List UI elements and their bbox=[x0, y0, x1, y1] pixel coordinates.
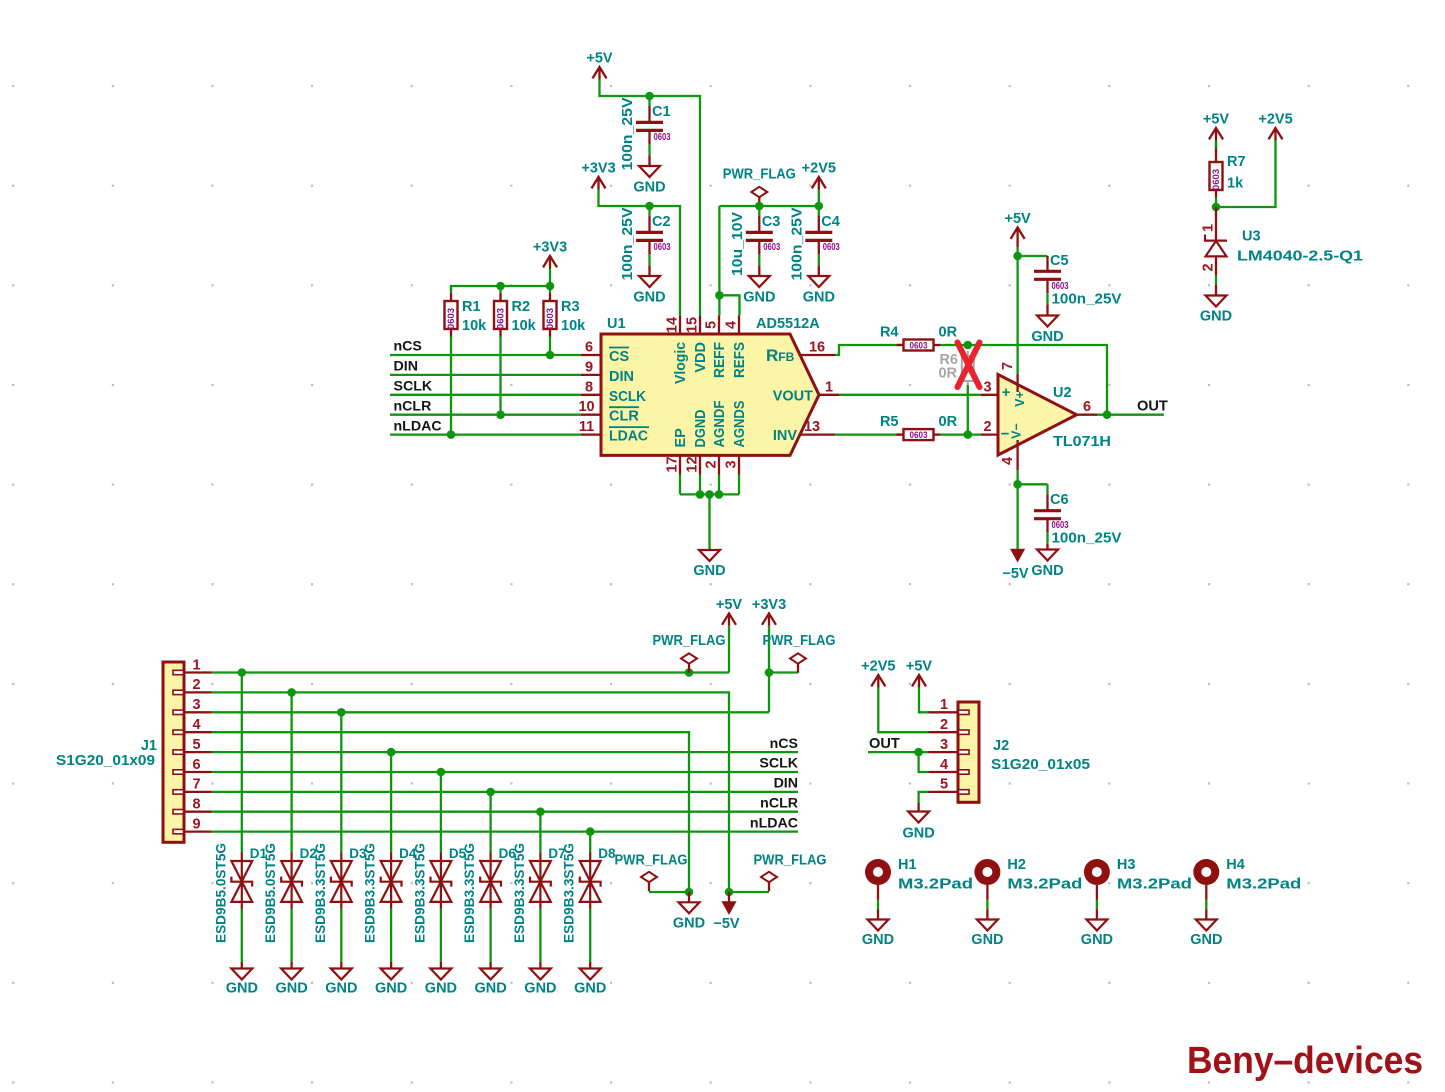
svg-text:M3.2Pad: M3.2Pad bbox=[898, 877, 973, 893]
svg-text:10u_10V: 10u_10V bbox=[730, 212, 746, 276]
svg-text:15: 15 bbox=[684, 317, 700, 333]
svg-text:7: 7 bbox=[192, 777, 200, 793]
svg-text:5: 5 bbox=[192, 737, 200, 753]
svg-text:+5V: +5V bbox=[1004, 211, 1031, 227]
svg-text:5: 5 bbox=[703, 321, 719, 329]
svg-text:2: 2 bbox=[192, 677, 200, 693]
svg-text:R4: R4 bbox=[880, 325, 899, 341]
svg-text:PWR_FLAG: PWR_FLAG bbox=[754, 853, 827, 869]
svg-text:+2V5: +2V5 bbox=[1258, 112, 1292, 128]
svg-text:0R: 0R bbox=[939, 325, 958, 341]
svg-text:2: 2 bbox=[1200, 263, 1216, 271]
svg-text:+2V5: +2V5 bbox=[861, 659, 895, 675]
svg-text:H1: H1 bbox=[898, 857, 917, 873]
svg-text:12: 12 bbox=[684, 456, 700, 472]
svg-text:ESD9B3.3ST5G: ESD9B3.3ST5G bbox=[412, 843, 427, 943]
svg-text:4: 4 bbox=[940, 757, 948, 773]
svg-text:3: 3 bbox=[940, 737, 948, 753]
svg-text:PWR_FLAG: PWR_FLAG bbox=[723, 167, 796, 183]
svg-text:+5V: +5V bbox=[906, 659, 933, 675]
svg-text:U2: U2 bbox=[1053, 385, 1072, 401]
svg-text:−5V: −5V bbox=[713, 916, 740, 932]
svg-text:1: 1 bbox=[825, 379, 833, 395]
svg-text:+5V: +5V bbox=[716, 597, 743, 613]
svg-text:10k: 10k bbox=[512, 318, 537, 334]
svg-text:D8: D8 bbox=[598, 846, 616, 861]
svg-text:SCLK: SCLK bbox=[759, 756, 798, 772]
svg-text:0603: 0603 bbox=[1052, 281, 1069, 292]
svg-text:GND: GND bbox=[633, 180, 665, 196]
svg-text:0603: 0603 bbox=[763, 242, 780, 253]
svg-text:GND: GND bbox=[971, 932, 1003, 948]
svg-text:C6: C6 bbox=[1050, 492, 1069, 508]
svg-text:nCLR: nCLR bbox=[394, 398, 432, 414]
svg-text:S1G20_01x09: S1G20_01x09 bbox=[56, 753, 155, 769]
svg-text:REFS: REFS bbox=[732, 342, 748, 378]
svg-text:INV: INV bbox=[773, 428, 798, 444]
svg-text:R2: R2 bbox=[512, 299, 531, 315]
svg-text:7: 7 bbox=[1000, 362, 1016, 370]
svg-text:GND: GND bbox=[375, 981, 407, 997]
svg-text:0603: 0603 bbox=[496, 308, 507, 329]
svg-text:100n_25V: 100n_25V bbox=[620, 97, 636, 170]
svg-text:+5V: +5V bbox=[586, 51, 613, 67]
svg-text:H2: H2 bbox=[1007, 857, 1026, 873]
svg-text:5: 5 bbox=[940, 777, 948, 793]
svg-text:M3.2Pad: M3.2Pad bbox=[1226, 877, 1301, 893]
svg-text:REFF: REFF bbox=[712, 342, 728, 378]
svg-text:0603: 0603 bbox=[654, 132, 671, 143]
svg-text:nLDAC: nLDAC bbox=[750, 815, 798, 831]
svg-text:3: 3 bbox=[983, 379, 991, 395]
svg-text:AD5512A: AD5512A bbox=[756, 316, 820, 332]
svg-text:0R: 0R bbox=[939, 414, 958, 430]
svg-text:S1G20_01x05: S1G20_01x05 bbox=[991, 757, 1090, 773]
svg-text:PWR_FLAG: PWR_FLAG bbox=[615, 853, 688, 869]
svg-text:6: 6 bbox=[1083, 399, 1091, 415]
svg-text:8: 8 bbox=[585, 379, 593, 395]
svg-text:PWR_FLAG: PWR_FLAG bbox=[653, 633, 726, 649]
svg-text:9: 9 bbox=[585, 359, 593, 375]
svg-text:nLDAC: nLDAC bbox=[394, 418, 442, 434]
svg-text:10k: 10k bbox=[462, 318, 487, 334]
svg-text:4: 4 bbox=[192, 717, 200, 733]
svg-text:ESD9B3.3ST5G: ESD9B3.3ST5G bbox=[313, 843, 328, 943]
svg-text:V−: V− bbox=[1010, 423, 1024, 439]
svg-text:Vlogic: Vlogic bbox=[673, 342, 689, 384]
svg-text:R1: R1 bbox=[462, 299, 481, 315]
svg-text:1: 1 bbox=[940, 697, 948, 713]
svg-text:GND: GND bbox=[524, 981, 556, 997]
svg-text:0603: 0603 bbox=[910, 430, 928, 441]
svg-text:DGND: DGND bbox=[693, 410, 709, 448]
svg-text:GND: GND bbox=[474, 981, 506, 997]
svg-text:3: 3 bbox=[192, 697, 200, 713]
svg-text:11: 11 bbox=[579, 419, 594, 435]
svg-text:GND: GND bbox=[743, 290, 775, 306]
svg-text:C3: C3 bbox=[762, 214, 781, 230]
svg-text:DIN: DIN bbox=[609, 369, 634, 385]
svg-text:GND: GND bbox=[1200, 309, 1232, 325]
svg-text:GND: GND bbox=[633, 290, 665, 306]
svg-text:GND: GND bbox=[574, 981, 606, 997]
svg-text:ESD9B5.0ST5G: ESD9B5.0ST5G bbox=[213, 843, 228, 943]
svg-text:16: 16 bbox=[809, 340, 825, 356]
svg-text:0603: 0603 bbox=[1211, 169, 1222, 190]
svg-text:nCS: nCS bbox=[770, 736, 798, 752]
svg-text:C5: C5 bbox=[1050, 253, 1069, 269]
svg-text:VDD: VDD bbox=[693, 342, 709, 373]
svg-text:OUT: OUT bbox=[1137, 399, 1168, 415]
svg-text:+5V: +5V bbox=[1203, 112, 1230, 128]
svg-text:17: 17 bbox=[664, 456, 680, 472]
svg-text:6: 6 bbox=[585, 340, 593, 356]
svg-text:C2: C2 bbox=[652, 214, 671, 230]
svg-text:1: 1 bbox=[192, 657, 200, 673]
svg-text:−: − bbox=[1001, 426, 1010, 443]
svg-text:14: 14 bbox=[664, 317, 680, 333]
svg-text:M3.2Pad: M3.2Pad bbox=[1007, 877, 1082, 893]
svg-text:AGNDS: AGNDS bbox=[732, 400, 748, 447]
svg-text:CS: CS bbox=[609, 349, 629, 365]
svg-text:10: 10 bbox=[578, 399, 594, 415]
svg-text:0603: 0603 bbox=[545, 308, 556, 329]
svg-text:100n_25V: 100n_25V bbox=[1052, 531, 1122, 547]
svg-text:SCLK: SCLK bbox=[609, 389, 646, 405]
svg-text:100n_25V: 100n_25V bbox=[620, 207, 636, 280]
svg-text:8: 8 bbox=[192, 797, 200, 813]
svg-text:GND: GND bbox=[325, 981, 357, 997]
svg-text:9: 9 bbox=[192, 816, 200, 832]
svg-text:GND: GND bbox=[425, 981, 457, 997]
svg-text:3: 3 bbox=[723, 460, 739, 468]
svg-text:+2V5: +2V5 bbox=[802, 161, 836, 177]
svg-text:SCLK: SCLK bbox=[394, 379, 433, 395]
svg-text:H3: H3 bbox=[1117, 857, 1136, 873]
svg-text:4: 4 bbox=[1000, 457, 1016, 465]
svg-text:CLR: CLR bbox=[609, 409, 639, 425]
svg-text:10k: 10k bbox=[561, 318, 586, 334]
svg-text:ESD9B3.3ST5G: ESD9B3.3ST5G bbox=[562, 843, 577, 943]
svg-text:0603: 0603 bbox=[654, 242, 671, 253]
svg-text:13: 13 bbox=[804, 419, 820, 435]
svg-text:TL071H: TL071H bbox=[1053, 434, 1111, 450]
svg-text:2: 2 bbox=[983, 419, 991, 435]
svg-text:4: 4 bbox=[723, 321, 739, 329]
svg-text:−5V: −5V bbox=[1002, 566, 1029, 582]
svg-text:ESD9B5.0ST5G: ESD9B5.0ST5G bbox=[263, 843, 278, 943]
svg-text:VOUT: VOUT bbox=[773, 389, 813, 405]
svg-text:+: + bbox=[1002, 384, 1011, 401]
svg-text:0603: 0603 bbox=[823, 242, 840, 253]
svg-text:Beny–devices: Beny–devices bbox=[1187, 1040, 1423, 1082]
svg-text:PWR_FLAG: PWR_FLAG bbox=[763, 633, 836, 649]
svg-text:V+: V+ bbox=[1013, 391, 1027, 407]
svg-text:EP: EP bbox=[673, 428, 689, 448]
svg-text:GND: GND bbox=[1031, 563, 1063, 579]
svg-text:U1: U1 bbox=[607, 316, 626, 332]
svg-text:GND: GND bbox=[862, 932, 894, 948]
svg-text:GND: GND bbox=[1031, 329, 1063, 345]
svg-text:OUT: OUT bbox=[869, 736, 900, 752]
svg-text:0603: 0603 bbox=[1052, 520, 1069, 531]
svg-text:ESD9B3.3ST5G: ESD9B3.3ST5G bbox=[363, 843, 378, 943]
svg-text:GND: GND bbox=[693, 563, 725, 579]
svg-text:M3.2Pad: M3.2Pad bbox=[1117, 877, 1192, 893]
svg-text:0R: 0R bbox=[938, 366, 957, 382]
svg-text:H4: H4 bbox=[1226, 857, 1245, 873]
svg-text:J1: J1 bbox=[141, 738, 157, 754]
svg-text:ESD9B3.3ST5G: ESD9B3.3ST5G bbox=[462, 843, 477, 943]
svg-text:GND: GND bbox=[803, 290, 835, 306]
svg-text:GND: GND bbox=[226, 981, 258, 997]
svg-text:100n_25V: 100n_25V bbox=[1052, 291, 1122, 307]
svg-text:R7: R7 bbox=[1227, 154, 1246, 170]
svg-text:GND: GND bbox=[673, 916, 705, 932]
svg-text:GND: GND bbox=[275, 981, 307, 997]
svg-text:J2: J2 bbox=[993, 738, 1009, 754]
svg-text:6: 6 bbox=[192, 757, 200, 773]
svg-text:U3: U3 bbox=[1242, 229, 1261, 245]
svg-text:1: 1 bbox=[1200, 224, 1216, 232]
svg-text:C4: C4 bbox=[821, 214, 840, 230]
svg-text:GND: GND bbox=[1190, 932, 1222, 948]
svg-text:AGNDF: AGNDF bbox=[712, 400, 728, 447]
svg-text:ESD9B3.3ST5G: ESD9B3.3ST5G bbox=[512, 843, 527, 943]
svg-text:+3V3: +3V3 bbox=[752, 597, 786, 613]
svg-text:nCLR: nCLR bbox=[760, 795, 798, 811]
svg-text:+3V3: +3V3 bbox=[581, 161, 615, 177]
svg-text:2: 2 bbox=[940, 717, 948, 733]
svg-text:DIN: DIN bbox=[394, 359, 418, 375]
svg-text:GND: GND bbox=[1081, 932, 1113, 948]
svg-text:0603: 0603 bbox=[446, 308, 457, 329]
svg-text:2: 2 bbox=[703, 460, 719, 468]
svg-text:R5: R5 bbox=[880, 414, 899, 430]
svg-text:nCS: nCS bbox=[394, 339, 422, 355]
svg-text:0603: 0603 bbox=[910, 341, 928, 352]
svg-text:LDAC: LDAC bbox=[609, 429, 649, 445]
svg-text:C1: C1 bbox=[652, 104, 671, 120]
svg-text:DIN: DIN bbox=[774, 776, 798, 792]
svg-text:LM4040-2.5-Q1: LM4040-2.5-Q1 bbox=[1237, 249, 1363, 265]
svg-text:GND: GND bbox=[902, 826, 934, 842]
svg-text:R3: R3 bbox=[561, 299, 580, 315]
svg-text:+3V3: +3V3 bbox=[533, 240, 567, 256]
svg-text:1k: 1k bbox=[1227, 176, 1244, 192]
svg-text:100n_25V: 100n_25V bbox=[789, 207, 805, 280]
